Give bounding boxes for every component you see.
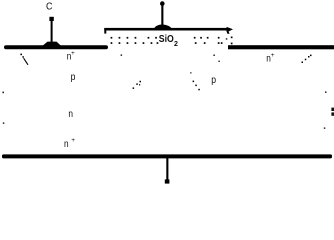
channel leader dots left xyxy=(133,81,141,89)
dotted leader to right metal xyxy=(302,55,312,63)
gate terminal lead xyxy=(160,1,165,26)
label n+ bottom (substrate) xyxy=(64,137,75,150)
substrate metal contact (bottom) xyxy=(2,154,332,158)
svg-text:n: n xyxy=(68,109,73,120)
SiO2 oxide dot hatch row 1 xyxy=(111,37,233,39)
svg-text:p: p xyxy=(71,72,76,83)
svg-text:2: 2 xyxy=(174,41,178,48)
svg-text:n: n xyxy=(64,139,69,150)
gate electrode xyxy=(104,27,233,34)
svg-text:p: p xyxy=(211,75,216,86)
anode terminal lead xyxy=(165,158,170,184)
SiO2 oxide dot hatch row 2 xyxy=(111,42,233,44)
svg-text:+: + xyxy=(71,50,75,57)
svg-text:+: + xyxy=(271,52,275,59)
gate contact bump xyxy=(154,24,173,29)
svg-text:+: + xyxy=(71,137,75,144)
svg-text:C: C xyxy=(46,2,53,13)
channel leader dots right xyxy=(193,81,200,91)
edge artifact marks right xyxy=(331,108,334,116)
label n+ left (source region) xyxy=(67,50,75,63)
label n+ right xyxy=(266,52,275,65)
leader dash to left metal xyxy=(20,54,28,65)
label SiO2 xyxy=(159,33,178,48)
terminal C lead xyxy=(49,17,53,43)
drain/anode metal contact (right) xyxy=(228,45,334,49)
cathode metal contact (left) xyxy=(4,45,108,49)
scan noise dots xyxy=(2,38,326,129)
svg-text:SiO: SiO xyxy=(159,33,174,45)
cathode contact bump xyxy=(43,42,62,46)
